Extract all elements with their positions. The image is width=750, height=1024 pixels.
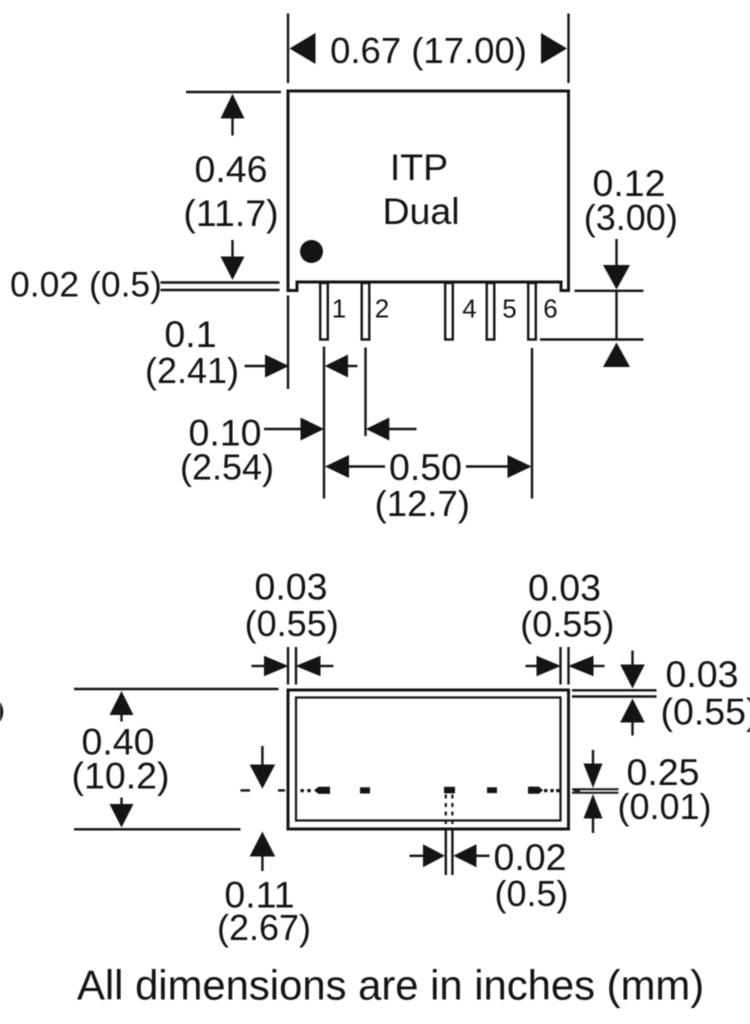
dim 0.25 up arrowhead <box>584 794 603 819</box>
dim 0.1 left-pointing arrowhead at pin1 <box>325 355 348 378</box>
dim 0.11 lower stub <box>261 856 263 872</box>
dim 0.03 lid: upper stub <box>631 651 633 666</box>
dim 0.03 right wall: left-pointing tail <box>593 665 605 667</box>
svg-text:0.03: 0.03 <box>666 653 739 695</box>
cropped glyph fragment at left edge <box>0 702 3 722</box>
pin 2 centerline <box>364 348 366 437</box>
dim 0.03 lid: down arrowhead <box>620 665 645 689</box>
dim 0.02 right dotted extension <box>451 795 453 830</box>
svg-text:0.67 (17.00): 0.67 (17.00) <box>330 30 527 71</box>
dim 0.46 upper stub <box>231 117 233 136</box>
dim 0.03 left wall: right-pointing arrowhead <box>264 656 289 676</box>
svg-text:0.02: 0.02 <box>494 836 567 878</box>
svg-text:(0.55): (0.55) <box>661 691 750 733</box>
dim 0.50 right arrowhead at pin6 <box>508 455 532 478</box>
dim 0.03 right wall: right-pointing arrowhead <box>537 656 562 676</box>
dim 0.03 right wall inner tick <box>559 647 561 685</box>
dim 0.67 right arrowhead <box>541 33 567 64</box>
pin 6 pad mark <box>528 787 543 794</box>
svg-text:(0.55): (0.55) <box>245 603 339 644</box>
dim 0.46 top extension line <box>186 91 281 93</box>
pin 1 indicator dot <box>300 240 323 263</box>
dim 0.03 lid: up arrowhead <box>620 699 645 723</box>
dim 0.02 left dotted extension <box>445 795 447 830</box>
pin 5 <box>487 283 495 340</box>
svg-text:(10.2): (10.2) <box>72 755 170 797</box>
dim 0.1 extension line below body left edge <box>287 296 289 390</box>
pin 1 <box>320 283 328 340</box>
dim 0.40 bottom extension line <box>74 828 241 830</box>
svg-text:(0.55): (0.55) <box>520 604 614 645</box>
dim 0.67 left extension line <box>287 14 289 84</box>
dim 0.02 left solid extension <box>445 830 447 876</box>
dim 0.50 right tail <box>466 465 509 467</box>
package body outline <box>288 91 569 291</box>
svg-text:0.03: 0.03 <box>528 567 601 609</box>
svg-text:(0.5): (0.5) <box>494 873 568 914</box>
dim 0.03 right wall: right-pointing tail <box>526 665 539 667</box>
svg-text:0.1: 0.1 <box>164 313 216 355</box>
dim 0.67 right extension line <box>567 14 569 84</box>
dim 0.1 right-pointing arrow tail <box>245 365 267 367</box>
dim 0.02 right solid extension <box>451 830 453 876</box>
svg-text:4: 4 <box>462 294 476 324</box>
dim 0.40 down arrowhead <box>110 804 134 828</box>
dim 0.25 upper stub <box>592 750 594 764</box>
pin 4 pad mark <box>444 787 455 794</box>
svg-text:5: 5 <box>502 294 516 324</box>
svg-text:0.02 (0.5): 0.02 (0.5) <box>10 265 162 305</box>
dim 0.46 down arrowhead <box>221 257 245 281</box>
dim 0.25 lower stub <box>592 818 594 834</box>
dim 0.02 left-pointing tail <box>476 855 490 857</box>
dim 0.1 right-pointing arrowhead <box>265 355 289 378</box>
svg-text:0.03: 0.03 <box>255 566 328 608</box>
dim 0.11 down arrowhead at centerline <box>250 765 276 789</box>
dim 0.12 down arrowhead <box>603 265 630 290</box>
dim 0.03 left wall: right-pointing tail <box>252 665 266 667</box>
svg-text:Dual: Dual <box>382 190 459 232</box>
dim 0.25 down arrowhead <box>584 764 603 789</box>
centerline dot d <box>550 789 553 792</box>
centerline dot c <box>544 789 547 792</box>
svg-text:(2.67): (2.67) <box>217 907 311 948</box>
pin 1 centerline <box>323 347 325 499</box>
dim 0.03 left wall inner tick <box>295 647 297 685</box>
dim 0.03 left wall: left-pointing tail <box>320 665 334 667</box>
dim 0.03 left wall: left-pointing arrowhead <box>296 656 321 676</box>
pin row centerline left extension dash <box>241 789 251 791</box>
centerline dot a <box>301 789 304 792</box>
centerline dot e <box>556 789 559 792</box>
dim 0.12 up arrowhead <box>603 343 630 368</box>
dim 0.25 upper reference line <box>572 788 619 790</box>
svg-text:(3.00): (3.00) <box>584 197 678 238</box>
dim 0.11 upper stub <box>261 746 263 766</box>
dim 0.10 left-pointing arrowhead at pin2 <box>366 418 390 441</box>
svg-text:6: 6 <box>543 294 557 324</box>
pin 2 <box>362 283 370 340</box>
standoff lower line 0.02 <box>161 289 280 291</box>
svg-text:(2.41): (2.41) <box>145 350 239 391</box>
dim 0.67 left arrowhead <box>290 33 316 64</box>
dim 0.10 left-pointing arrow tail <box>388 428 416 430</box>
dim 0.03 right wall: left-pointing arrowhead <box>568 656 594 676</box>
dim 0.02 left-pointing arrowhead <box>453 844 476 867</box>
svg-text:(0.01): (0.01) <box>617 786 711 827</box>
bottom view outer rectangle <box>288 690 569 829</box>
dim 0.12 vertical line <box>615 291 617 340</box>
standoff upper line 0.02 <box>161 281 280 283</box>
svg-text:ITP: ITP <box>390 146 448 188</box>
dim 0.46 up arrowhead <box>221 94 245 119</box>
dim 0.03 right wall outer tick <box>567 647 569 685</box>
dim 0.02 right-pointing arrowhead <box>423 844 445 867</box>
dim 0.50 left tail <box>348 465 385 467</box>
svg-text:(11.7): (11.7) <box>183 192 278 234</box>
dim 0.03 left wall outer tick <box>287 647 289 685</box>
dim 0.40 upper stub <box>120 714 122 722</box>
svg-text:(2.54): (2.54) <box>180 447 274 488</box>
dim 0.40 up arrowhead <box>110 691 134 715</box>
svg-text:0.46: 0.46 <box>195 148 268 190</box>
dim 0.10 right-pointing arrowhead <box>301 418 325 441</box>
dim 0.25 lower reference line <box>572 792 619 794</box>
dim 0.1 left-pointing arrow tail <box>347 365 358 367</box>
dim 0.12 upper reference line <box>575 290 644 292</box>
dim 0.03 lid: lower stub <box>631 722 633 736</box>
pin 6 centerline <box>531 348 533 499</box>
pin 2 pad mark <box>360 787 370 793</box>
centerline dash outside left wall <box>278 789 285 791</box>
svg-text:0.50: 0.50 <box>389 446 462 488</box>
pin 1 pad mark <box>314 787 330 794</box>
bottom view inner rectangle <box>296 698 561 821</box>
svg-text:All dimensions are in inches (: All dimensions are in inches (mm) <box>77 962 704 1009</box>
pin 6 <box>528 283 536 340</box>
dim 0.46 lower stub <box>231 240 233 258</box>
dim 0.10 right-pointing arrow tail <box>264 428 302 430</box>
pin 5 pad mark <box>487 787 497 793</box>
dim 0.40 top extension line <box>74 688 279 690</box>
dim 0.02 right-pointing tail <box>410 855 425 857</box>
pin 4 <box>445 283 453 340</box>
dim 0.11 up arrowhead at bottom edge <box>250 832 276 857</box>
dim 0.12 upper stub <box>615 239 617 266</box>
dim 0.03 lid: outer line extension <box>572 689 657 691</box>
svg-text:2: 2 <box>375 294 389 324</box>
svg-text:1: 1 <box>332 294 346 324</box>
dim 0.40 lower stub <box>120 798 122 807</box>
dim 0.50 left arrowhead at pin1 <box>325 455 349 478</box>
centerline dash outside right wall <box>574 789 581 791</box>
dim 0.12 lower reference line (pin seating) <box>540 338 644 340</box>
dim 0.03 lid: inner line extension <box>572 695 657 697</box>
centerline dot b <box>307 789 310 792</box>
svg-text:(12.7): (12.7) <box>375 483 470 524</box>
